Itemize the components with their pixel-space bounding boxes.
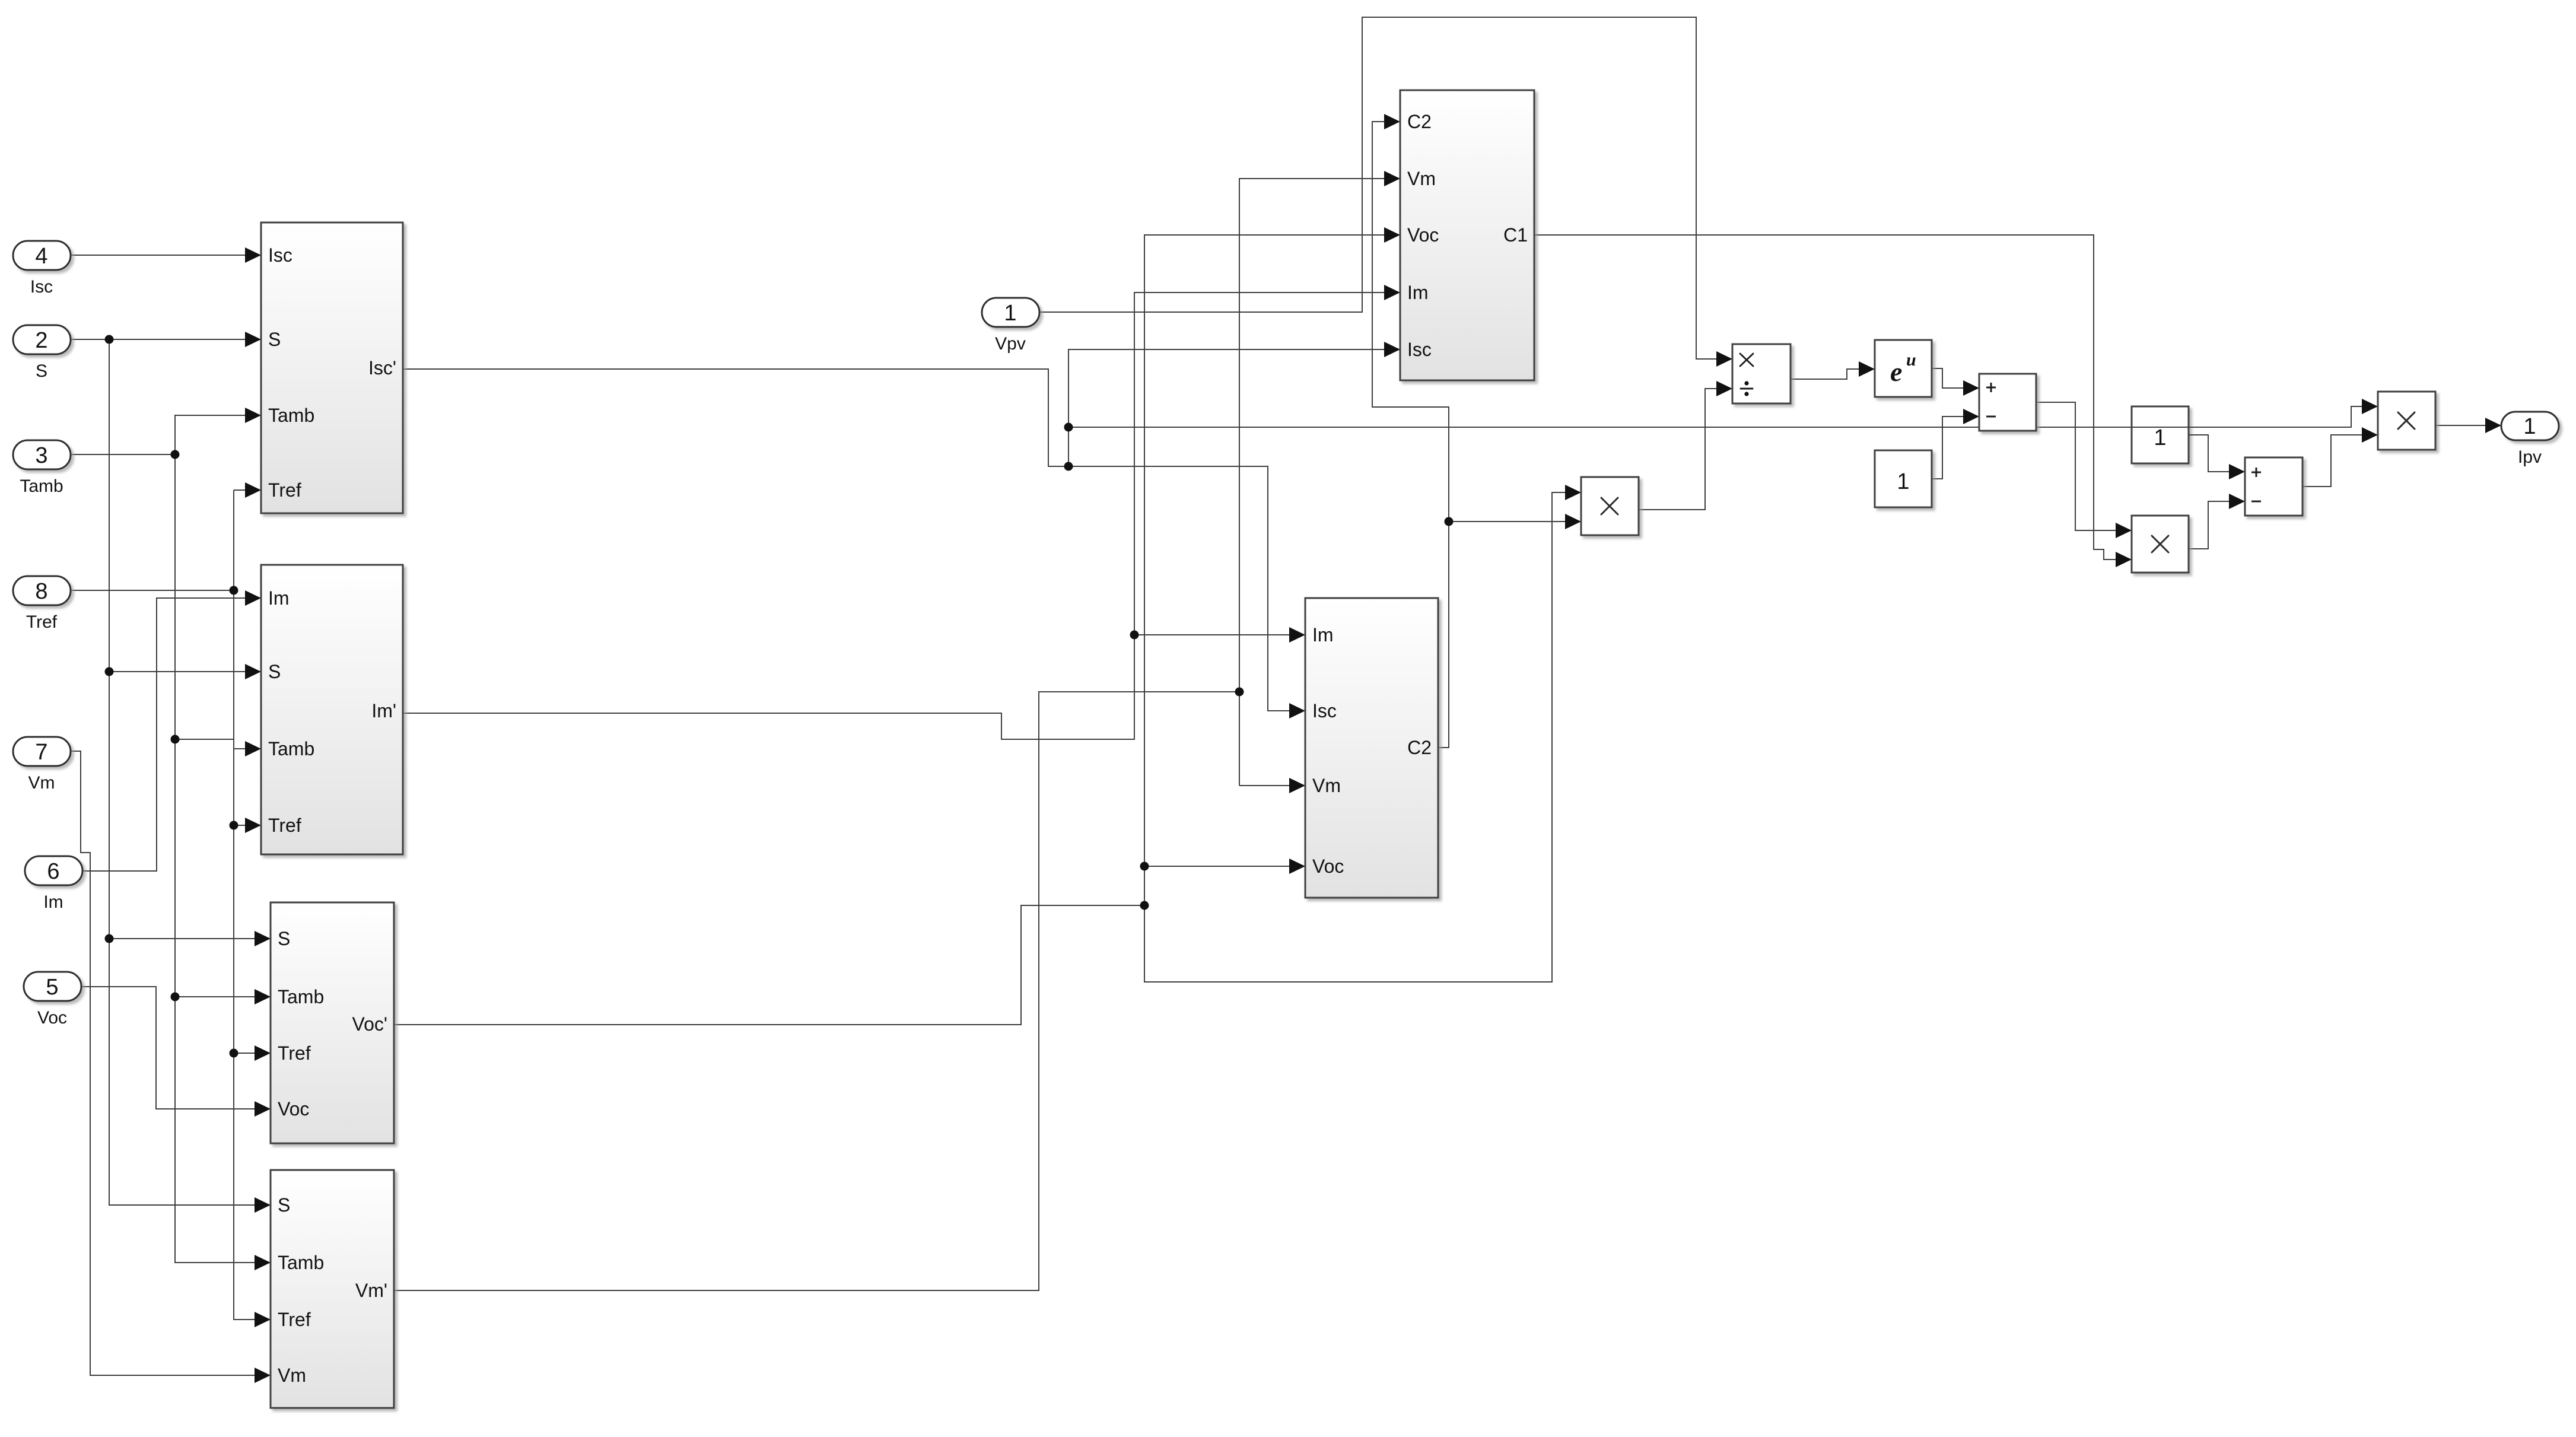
input port 4 (Isc) xyxy=(13,241,71,297)
input port 7 (Vm) xyxy=(13,737,71,793)
subsystem C1 (C1 coefficient block) xyxy=(1400,90,1534,380)
svg-text:3: 3 xyxy=(35,443,47,468)
wire: S net (port 2 to B1,B2,B3,B4) xyxy=(71,332,271,1213)
svg-text:C2: C2 xyxy=(1407,737,1432,758)
svg-text:Tamb: Tamb xyxy=(268,738,314,759)
sum block S1 (+ -) xyxy=(1979,374,2036,431)
wire: product-divide output to exp input xyxy=(1790,361,1875,379)
wire: Vpv net (port 1 to product-divide X input) xyxy=(1039,17,1732,367)
input port 6 (Im) xyxy=(25,856,82,912)
svg-text:Vm: Vm xyxy=(28,773,55,793)
wire: Isc input net (port 4 to subsystem B1) xyxy=(71,247,261,263)
wire: product X3 output to sum S2 minus input xyxy=(2189,494,2245,549)
wire: Vm input (port 7 to B4) xyxy=(71,751,271,1383)
svg-text:Im: Im xyxy=(268,587,290,609)
svg-text:Tamb: Tamb xyxy=(20,476,63,496)
svg-text:S: S xyxy=(278,928,290,949)
svg-text:6: 6 xyxy=(47,859,59,884)
svg-text:Tamb: Tamb xyxy=(278,1252,324,1273)
svg-text:Vm: Vm xyxy=(1407,168,1436,189)
svg-text:Tref: Tref xyxy=(278,1309,311,1330)
wire: Isc' net (B1 output to C1.Isc, C2.Isc and final product) xyxy=(403,342,2378,718)
wire: Voc' net (B3 output to C1.Voc, C2.Voc and product X2) xyxy=(394,227,1581,1025)
output port 1 (Ipv) xyxy=(2501,412,2559,467)
svg-text:Voc: Voc xyxy=(1312,856,1344,877)
svg-text:Tref: Tref xyxy=(268,479,301,501)
svg-text:2: 2 xyxy=(35,328,47,353)
subsystem B3 (Voc' adjustment block) xyxy=(271,902,394,1143)
input port 2 (S) xyxy=(13,325,71,381)
exp block EXP (e^u) xyxy=(1875,340,1932,397)
svg-text:Tref: Tref xyxy=(268,815,301,836)
wire: Voc input (port 5 to B3) xyxy=(81,987,271,1117)
input port 3 (Tamb) xyxy=(13,440,71,496)
wire: constant 1 to sum S1 minus input xyxy=(1932,409,1979,479)
subsystem B1 (Isc' adjustment block) xyxy=(261,222,403,513)
svg-text:Isc: Isc xyxy=(268,244,292,266)
svg-text:S: S xyxy=(268,661,281,682)
svg-text:Voc: Voc xyxy=(1407,224,1439,246)
svg-text:Isc: Isc xyxy=(1407,339,1432,360)
svg-text:Isc: Isc xyxy=(1312,700,1337,721)
svg-text:Im: Im xyxy=(1407,282,1429,303)
svg-text:Vm': Vm' xyxy=(355,1280,387,1301)
wire: gain K1 output to sum S2 plus input xyxy=(2189,435,2245,479)
svg-text:Tref: Tref xyxy=(26,612,58,632)
product-divide block MD (Vpv x / C2Voc ÷) xyxy=(1732,344,1791,403)
svg-text:5: 5 xyxy=(46,975,58,1000)
wire: C1 net (C1 output to product X3) xyxy=(1534,235,2132,567)
input port 5 (Voc) xyxy=(24,972,81,1028)
subsystem C2 (C2 coefficient block) xyxy=(1305,598,1438,898)
svg-text:Ipv: Ipv xyxy=(2518,447,2542,467)
svg-text:Im: Im xyxy=(1312,624,1334,646)
svg-text:Voc': Voc' xyxy=(352,1013,387,1035)
constant block K2 (value 1) xyxy=(1875,450,1932,507)
wire: Tamb net (port 3 to B1,B2,B3,B4) xyxy=(71,408,271,1270)
svg-text:C1: C1 xyxy=(1503,224,1528,246)
svg-text:1: 1 xyxy=(2154,425,2166,450)
wire: sum S2 output to final product X4 xyxy=(2303,427,2378,487)
svg-text:Vm: Vm xyxy=(1312,775,1341,796)
svg-text:8: 8 xyxy=(35,579,47,604)
input port 1 (Vpv) xyxy=(982,298,1039,354)
wire: final product X4 output to out port Ipv xyxy=(2435,418,2501,433)
svg-text:Vm: Vm xyxy=(278,1365,306,1386)
subsystem B2 (Im' adjustment block) xyxy=(261,565,403,854)
wire: product X2 output to divide input xyxy=(1639,381,1732,510)
svg-text:S: S xyxy=(278,1194,290,1216)
wire: C2 net (C2 output to C1.C2 input and product X2) xyxy=(1372,114,1581,748)
svg-text:S: S xyxy=(268,329,281,350)
svg-text:4: 4 xyxy=(35,244,47,269)
subsystem B4 (Vm' adjustment block) xyxy=(271,1170,394,1408)
wire: sum S1 output to product X3 xyxy=(2036,402,2132,538)
svg-text:7: 7 xyxy=(35,740,47,765)
svg-text:S: S xyxy=(36,361,47,381)
input port 8 (Tref) xyxy=(13,576,71,632)
svg-text:1: 1 xyxy=(2523,414,2536,439)
svg-text:Tref: Tref xyxy=(278,1042,311,1064)
svg-text:Isc': Isc' xyxy=(368,357,396,379)
svg-text:Voc: Voc xyxy=(37,1008,67,1028)
wire: Tref net (port 8 to B1,B2,B3,B4) xyxy=(71,482,271,1327)
product block X3 (S1 x C1) xyxy=(2132,516,2189,573)
gain block K1 (unity gain "1", drawn under wires) xyxy=(2132,406,2189,463)
svg-text:Im: Im xyxy=(43,892,63,912)
sum block S2 (+ -) xyxy=(2245,457,2303,516)
svg-text:Isc: Isc xyxy=(30,277,53,297)
svg-text:u: u xyxy=(1906,350,1916,370)
svg-text:C2: C2 xyxy=(1407,111,1432,132)
wire: Vm' net (B4 output to C1.Vm and C2.Vm) xyxy=(394,171,1400,1290)
wire: Im input (port 6 to B2) xyxy=(82,590,261,871)
wire: Im' net (B2 output to C1.Im and C2.Im) xyxy=(403,285,1400,739)
svg-text:Tamb: Tamb xyxy=(268,405,314,426)
svg-text:1: 1 xyxy=(1004,301,1016,326)
product block X4 (final Ipv product) xyxy=(2378,392,2435,450)
svg-text:e: e xyxy=(1890,357,1902,387)
product block X2 (Voc' x C2) xyxy=(1581,477,1639,535)
svg-text:Im': Im' xyxy=(371,700,396,721)
svg-text:Tamb: Tamb xyxy=(278,986,324,1007)
svg-text:1: 1 xyxy=(1897,469,1909,494)
wire: exp output to sum S1 plus input xyxy=(1932,368,1979,396)
svg-text:Vpv: Vpv xyxy=(995,334,1026,354)
svg-text:Voc: Voc xyxy=(278,1098,309,1120)
